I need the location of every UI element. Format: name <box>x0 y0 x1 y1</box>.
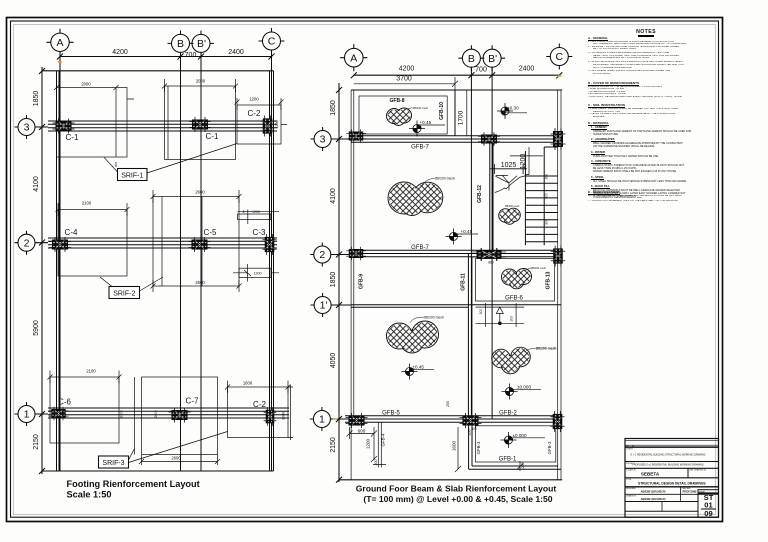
svg-text:Ø8/200 mesh: Ø8/200 mesh <box>435 177 455 181</box>
svg-text:2600: 2600 <box>195 280 205 285</box>
GFB-6 mesh cloud <box>502 266 547 289</box>
svg-text:C-2: C-2 <box>248 109 261 118</box>
grid line C vertical <box>271 50 273 471</box>
svg-text:1200: 1200 <box>254 272 262 276</box>
svg-text:1200: 1200 <box>252 210 260 214</box>
svg-text:4050: 4050 <box>330 353 337 369</box>
svg-text:GFB-7: GFB-7 <box>411 245 429 251</box>
footing C-6 at A1 <box>49 407 69 421</box>
svg-text:3700: 3700 <box>396 75 412 82</box>
svg-text:3: 3 <box>24 122 30 134</box>
big room lower mesh cloud <box>387 316 444 354</box>
svg-text:GFB-4: GFB-4 <box>381 433 386 446</box>
SRIF-1 leaders <box>104 144 237 174</box>
svg-text:2150: 2150 <box>33 434 40 450</box>
svg-text:2600: 2600 <box>154 410 158 418</box>
row 3 strip footing beam lines <box>48 121 277 131</box>
grid line A vertical <box>59 52 61 472</box>
spot elevation +-0.000 room GFB-1 <box>501 432 517 448</box>
svg-text:1': 1' <box>320 300 328 312</box>
svg-text:200: 200 <box>521 463 525 469</box>
footing C-1 at B'3 <box>189 117 211 132</box>
row1' dim group <box>476 303 525 327</box>
svg-text:1: 1 <box>24 409 30 421</box>
spot elevation +-0.45 <box>402 364 418 380</box>
dim 1700 <box>466 90 468 136</box>
svg-text:1200: 1200 <box>366 438 371 449</box>
svg-text:PROPOSED G+1 RESIDENTIAL BUILD: PROPOSED G+1 RESIDENTIAL BUILDING WORKIN… <box>632 464 704 467</box>
svg-text:C-2: C-2 <box>253 400 266 409</box>
svg-text:300: 300 <box>479 309 483 315</box>
bottom left dims: 600 <box>347 427 378 439</box>
svg-text:SEBETA: SEBETA <box>641 471 660 476</box>
NOTES panel <box>588 26 714 28</box>
row 3 beam <box>351 136 561 143</box>
svg-text:500: 500 <box>471 427 477 431</box>
node B'1 <box>460 413 482 428</box>
svg-text:+0.30: +0.30 <box>507 106 519 111</box>
svg-text:C-7: C-7 <box>186 397 199 406</box>
svg-text:1600: 1600 <box>452 440 457 451</box>
svg-text:1850: 1850 <box>33 91 40 107</box>
RIGHT-PLAN <box>310 44 573 504</box>
svg-text:GFB-8: GFB-8 <box>390 98 405 104</box>
svg-text:4100: 4100 <box>33 176 40 192</box>
right lower mesh cloud <box>492 347 557 374</box>
pad footing row1 at B (C-7) <box>142 377 218 455</box>
svg-text:2000: 2000 <box>196 79 206 84</box>
svg-text:GFB-11: GFB-11 <box>461 273 467 291</box>
svg-text:Ø8/200 mesh: Ø8/200 mesh <box>505 205 520 208</box>
SRIF-2 leaders <box>100 277 163 291</box>
TITLE-BLOCK <box>625 439 719 519</box>
mesh cloud room GFB-8 <box>387 106 429 126</box>
svg-text:1025: 1025 <box>501 162 517 169</box>
right wall pair <box>270 71 274 471</box>
row grid bubble 2 <box>15 231 49 255</box>
svg-text:C: C <box>268 36 276 48</box>
svg-text:GFB-5: GFB-5 <box>382 411 400 417</box>
svg-text:2100: 2100 <box>86 369 96 374</box>
svg-text:700: 700 <box>475 67 487 74</box>
svg-text:4100: 4100 <box>330 188 337 204</box>
spot elevation +0.45 mid <box>446 229 462 245</box>
svg-text:GFB-12: GFB-12 <box>477 185 483 203</box>
top dimension line <box>60 56 272 58</box>
svg-text:300: 300 <box>545 193 549 199</box>
3700 edge line <box>454 90 456 136</box>
svg-text:Ground Foor Beam & Slab Rienfo: Ground Foor Beam & Slab Rienforcement La… <box>356 484 557 494</box>
svg-text:1850: 1850 <box>330 272 337 288</box>
row bubble 1 <box>310 407 351 431</box>
svg-text:880: 880 <box>488 261 494 265</box>
left dimension chain <box>338 83 340 482</box>
node C1 <box>550 411 564 432</box>
partition wall at B rows2-1 <box>468 254 472 420</box>
grid bubble B <box>168 31 194 57</box>
svg-text:1600: 1600 <box>243 381 253 386</box>
svg-text:Ø8/200 mesh: Ø8/200 mesh <box>413 106 429 110</box>
sheet no box <box>698 490 719 518</box>
grid bubble B' <box>483 45 505 71</box>
svg-text:GFB-9: GFB-9 <box>359 274 365 289</box>
svg-text:DESIGNED: DESIGNED <box>626 488 637 490</box>
footing C-7 at B1 <box>169 408 191 423</box>
svg-text:DRAWN BY: DRAWN BY <box>626 495 637 498</box>
footing C-1 at A3 <box>53 119 75 134</box>
svg-text:1: 1 <box>319 414 325 426</box>
row 2 strip footing beam lines <box>48 238 277 248</box>
stair break line <box>495 176 525 193</box>
stair dim 1200 <box>510 147 543 175</box>
svg-text:5900: 5900 <box>33 320 40 336</box>
svg-text:2150: 2150 <box>330 437 337 453</box>
svg-text:+0.45: +0.45 <box>420 120 432 125</box>
row bubble 1' <box>311 293 352 317</box>
SRIF-1 label box <box>118 169 148 181</box>
svg-text:GFB-2: GFB-2 <box>499 411 517 417</box>
footing C-5 at B'2 <box>189 237 211 252</box>
svg-text:STRUCTURAL DESIGN DETAIL DRAWI: STRUCTURAL DESIGN DETAIL DRAWINGS <box>638 482 706 486</box>
node B'3 <box>478 132 500 146</box>
partition wall at B' rows3-2 <box>490 139 493 250</box>
grid line B vertical <box>470 67 472 419</box>
stair dim 1025 <box>490 164 527 174</box>
svg-text:2: 2 <box>319 249 325 261</box>
svg-text:Ø8/200 mesh: Ø8/200 mesh <box>536 347 557 351</box>
row 1 strip footing beam lines <box>48 408 289 418</box>
tiny cell labels <box>626 446 706 498</box>
plan left wall <box>351 90 354 480</box>
svg-text:±0.45: ±0.45 <box>413 364 425 369</box>
grid line B' vertical <box>200 53 202 472</box>
spot elevation +-0.000 mid <box>502 384 518 400</box>
svg-text:1600: 1600 <box>282 412 286 420</box>
svg-text:2400: 2400 <box>519 66 535 73</box>
grid line B' vertical <box>491 67 493 419</box>
svg-text:B: B <box>177 38 184 50</box>
footing C-3 at C2 <box>262 234 276 255</box>
plan right wall <box>558 90 561 480</box>
svg-text:C: C <box>556 51 564 63</box>
row bubble 3 <box>311 127 352 151</box>
pad footing row1 at C (C-2) <box>228 387 289 438</box>
grid bubble B <box>458 45 484 71</box>
footing C-2 at C1 <box>264 407 277 426</box>
svg-text:3: 3 <box>320 134 326 146</box>
spot elevation +0.45 top <box>409 121 425 137</box>
stair flight <box>525 147 557 245</box>
svg-text:LOCATION: LOCATION <box>626 469 636 472</box>
title block outer box <box>625 439 719 518</box>
plan top wall <box>351 89 562 91</box>
SRIF-3 leaders <box>129 432 228 463</box>
svg-text:SRIF-1: SRIF-1 <box>121 173 143 180</box>
grid bubble A <box>340 44 367 71</box>
svg-text:PROF.EMB: PROF.EMB <box>683 490 697 494</box>
stair winder fan <box>496 175 518 190</box>
pad footing row3 at B' <box>165 86 236 160</box>
dim 1600 left of GFB-1 room <box>455 427 461 472</box>
svg-text:TITLE: TITLE <box>626 479 632 481</box>
svg-text:300: 300 <box>545 219 549 225</box>
svg-text:2: 2 <box>24 237 30 249</box>
svg-text:Ø8/200 mesh: Ø8/200 mesh <box>424 316 444 320</box>
pad footing C-2 top <box>237 105 281 144</box>
footing C-2 at C3 <box>260 116 274 137</box>
svg-text:GFB-3: GFB-3 <box>476 441 481 454</box>
svg-text:8: 8 <box>243 210 245 214</box>
SRIF-2 label box <box>109 287 140 299</box>
pad footing row1 at A (C-6) <box>50 377 119 443</box>
room GFB-6 inner outline <box>476 259 555 302</box>
svg-text:GFB-1: GFB-1 <box>499 457 517 463</box>
plan outline top <box>42 70 274 72</box>
svg-text:C-1: C-1 <box>66 133 79 142</box>
svg-text:No.: No. <box>626 446 629 448</box>
cell dividers <box>632 445 634 447</box>
row bubble 2 <box>310 243 351 267</box>
pad footing row3 at A <box>57 88 128 158</box>
pad footing row2 at B' <box>153 197 239 287</box>
svg-text:300: 300 <box>510 316 514 322</box>
svg-text:C-3: C-3 <box>253 228 266 237</box>
row lines <box>625 444 719 446</box>
svg-text:C-6: C-6 <box>58 398 71 407</box>
svg-text:Ø8/200 mesh: Ø8/200 mesh <box>531 266 547 270</box>
pad 1200 row2 right upper <box>238 214 271 220</box>
scan mark orange dots <box>558 75 562 77</box>
room GFB-1 outline <box>469 422 561 469</box>
footing C-4 at A2 <box>49 237 71 252</box>
svg-text:1850: 1850 <box>330 100 337 116</box>
LEFT-PLAN <box>15 28 294 500</box>
svg-text:C-4: C-4 <box>65 228 78 237</box>
svg-text:1200: 1200 <box>275 121 279 129</box>
svg-text:GFB-6: GFB-6 <box>505 296 523 302</box>
svg-text:2400: 2400 <box>228 49 244 56</box>
row 1 beam <box>345 416 561 423</box>
svg-text:GFB-3: GFB-3 <box>547 441 552 454</box>
scan mark orange dot <box>58 61 62 63</box>
left dimension chain <box>41 67 43 474</box>
svg-text:Scale 1:50: Scale 1:50 <box>67 490 112 500</box>
svg-text:C-5: C-5 <box>204 228 217 237</box>
svg-text:600: 600 <box>358 428 366 433</box>
svg-text:SRIF-2: SRIF-2 <box>113 291 135 298</box>
left wall pair <box>57 71 60 471</box>
svg-text:GFB-10: GFB-10 <box>439 102 445 120</box>
svg-text:GFB-7: GFB-7 <box>411 145 429 151</box>
svg-text:4200: 4200 <box>399 66 415 73</box>
svg-text:ABEBE (BR.MD.P): ABEBE (BR.MD.P) <box>640 497 665 501</box>
svg-text:1700: 1700 <box>458 110 465 125</box>
svg-text:G + 1 RESIDENTIAL BUILDING STR: G + 1 RESIDENTIAL BUILDING STRUCTURAL WO… <box>630 454 705 457</box>
svg-text:300: 300 <box>545 174 549 180</box>
svg-text:1200: 1200 <box>249 97 259 102</box>
row grid bubble 1 <box>15 402 49 426</box>
svg-text:GFB-13: GFB-13 <box>546 271 552 289</box>
big room mesh cloud <box>388 177 455 216</box>
svg-text:B': B' <box>488 53 497 65</box>
beam GFB-4 stub <box>371 422 386 467</box>
svg-text:250: 250 <box>446 401 450 407</box>
bottom dim 2600 under C-7 <box>142 455 218 465</box>
node C2 <box>551 246 565 267</box>
row 2 beam <box>351 250 561 257</box>
svg-text:B': B' <box>197 38 206 50</box>
node A2 <box>346 247 366 261</box>
svg-text:REF. DRAWING No: REF. DRAWING No <box>690 469 707 472</box>
svg-text:±0.000: ±0.000 <box>517 384 531 389</box>
top dimension line <box>354 74 560 76</box>
spot elevation +0.30 <box>497 103 513 119</box>
svg-text:700: 700 <box>185 52 197 59</box>
svg-text:A: A <box>350 52 357 64</box>
dim line 3700 <box>354 77 458 90</box>
svg-text:2300: 2300 <box>120 410 124 418</box>
svg-text:09: 09 <box>704 509 712 518</box>
row grid bubble 3 <box>15 115 49 139</box>
svg-text:ABEBE (BR.MD.P): ABEBE (BR.MD.P) <box>640 490 665 494</box>
svg-text:+0.45: +0.45 <box>461 229 473 234</box>
node A3 <box>346 129 366 143</box>
svg-text:SRIF-3: SRIF-3 <box>102 460 124 467</box>
svg-text:Footing Rienforcement Layout: Footing Rienforcement Layout <box>67 479 200 489</box>
room GFB-8 inner outline <box>359 96 447 134</box>
grid bubble A <box>47 29 74 56</box>
plan bottom wall <box>339 479 562 481</box>
stair mesh cloud <box>499 205 521 225</box>
grid line B vertical <box>180 53 182 472</box>
svg-text:B: B <box>468 53 475 65</box>
svg-text:2000: 2000 <box>81 82 91 87</box>
svg-text:CLIENT: CLIENT <box>626 449 634 451</box>
svg-text:C-1: C-1 <box>206 132 219 141</box>
node C3 <box>551 128 566 150</box>
svg-text:±0.000: ±0.000 <box>513 433 527 438</box>
plan outline bottom <box>42 470 274 472</box>
svg-text:(T= 100 mm) @ Level +0.00 & +0: (T= 100 mm) @ Level +0.00 & +0.45, Scale… <box>363 494 552 504</box>
pad 1200 row2 right lower <box>239 268 271 277</box>
svg-text:SHEET: SHEET <box>699 492 706 494</box>
SRIF-3 label box <box>99 456 129 468</box>
pad footing row2 at A <box>58 210 127 277</box>
node B2-B'2 wide <box>472 248 506 261</box>
svg-text:4200: 4200 <box>112 49 128 56</box>
grid bubble B' <box>192 31 214 57</box>
svg-text:A: A <box>56 37 63 49</box>
svg-text:2100: 2100 <box>82 201 92 206</box>
grid bubble C <box>546 44 572 70</box>
row 1' partition <box>351 305 561 307</box>
svg-text:1200: 1200 <box>520 154 527 170</box>
svg-text:2600: 2600 <box>195 190 205 195</box>
node A1 <box>346 413 368 428</box>
svg-text:2600: 2600 <box>171 456 181 461</box>
grid bubble C <box>259 28 285 54</box>
svg-text:200: 200 <box>374 460 378 466</box>
